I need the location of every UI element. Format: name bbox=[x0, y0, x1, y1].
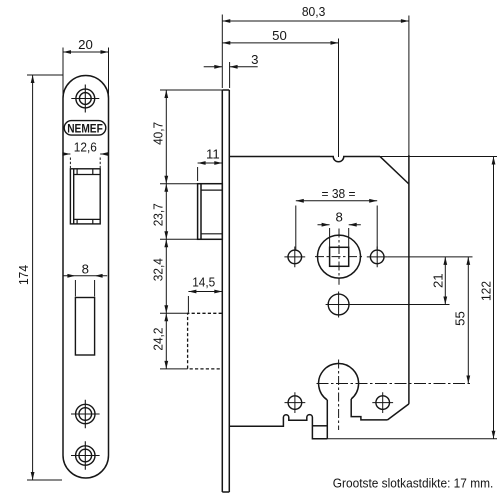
dimension 8 (spindle square) bbox=[318, 223, 361, 248]
case top right chamfer bbox=[380, 157, 409, 185]
extension lines for left chained dimensions bbox=[160, 90, 222, 369]
svg-text:11: 11 bbox=[206, 147, 220, 162]
dimension 21 (spindle to middle hole) bbox=[443, 257, 447, 305]
svg-text:NEMEF: NEMEF bbox=[67, 122, 103, 135]
dimension 8 (deadbolt cutout width) bbox=[63, 274, 107, 297]
svg-text:21: 21 bbox=[430, 273, 445, 288]
svg-text:Grootste slotkastdikte: 17 mm.: Grootste slotkastdikte: 17 mm. bbox=[333, 476, 494, 490]
case bottom right chamfer bbox=[388, 404, 409, 420]
svg-text:24,2: 24,2 bbox=[151, 328, 166, 351]
deadbolt thrown position (dashed, side view) bbox=[188, 313, 222, 369]
svg-text:3: 3 bbox=[251, 52, 258, 67]
svg-text:8: 8 bbox=[82, 262, 89, 277]
svg-text:= 38 =: = 38 = bbox=[322, 186, 356, 201]
screw hole middle (front view) bbox=[71, 400, 100, 429]
caption: Grootste slotkastdikte: 17 mm. bbox=[333, 476, 494, 490]
cylinder centre lines bbox=[317, 360, 473, 431]
svg-text:174: 174 bbox=[16, 265, 31, 285]
left chained dimension line (40,7 / 23,7 / 32,4 / 24,2) bbox=[164, 90, 168, 369]
deadbolt cutout (front view) bbox=[75, 298, 94, 356]
dimension 50 (backset) bbox=[222, 39, 338, 158]
top edge extension line to 122 dim bbox=[380, 156, 497, 158]
case fixing hole bottom right bbox=[372, 392, 393, 413]
svg-text:23,7: 23,7 bbox=[151, 203, 166, 226]
svg-text:122: 122 bbox=[479, 281, 494, 301]
svg-text:50: 50 bbox=[272, 28, 287, 43]
dimension 20 (faceplate width) bbox=[63, 48, 109, 98]
dimension 55 (spindle to cylinder) bbox=[466, 257, 470, 384]
svg-text:80,3: 80,3 bbox=[302, 4, 326, 19]
dimension 80,3 (case depth overall) bbox=[222, 15, 409, 156]
screw hole top (front view) bbox=[71, 85, 99, 113]
label 40,7 bbox=[151, 122, 166, 145]
extension line from right fixing hole to 21/55 dims bbox=[388, 256, 473, 258]
dimension 14,5 (deadbolt throw) bbox=[188, 290, 222, 313]
dimension 3 (faceplate thickness) bbox=[204, 62, 258, 88]
svg-text:32,4: 32,4 bbox=[151, 258, 166, 281]
svg-text:12,6: 12,6 bbox=[74, 140, 97, 155]
latch cutout (front view) bbox=[70, 169, 100, 224]
lock case top edge with notch bbox=[229, 157, 380, 162]
spindle centre lines bbox=[315, 229, 364, 285]
handle fixing hole left bbox=[284, 247, 305, 268]
faceplate side view (3mm plate) bbox=[222, 90, 229, 492]
handle fixing hole right bbox=[367, 247, 388, 268]
svg-text:8: 8 bbox=[336, 210, 343, 225]
front faceplate outline bbox=[63, 76, 109, 479]
case back edge bbox=[408, 155, 410, 404]
case bottom contour with spring bumps and cylinder foot bbox=[229, 399, 387, 439]
middle fixing hole bbox=[326, 292, 352, 318]
svg-text:40,7: 40,7 bbox=[151, 122, 166, 145]
dimension 12,6 (latch cutout width) bbox=[62, 152, 108, 168]
dimension =38= (handle hole spacing) bbox=[296, 199, 377, 250]
NEMEF logo text bbox=[67, 122, 103, 135]
label 32,4 bbox=[151, 258, 166, 281]
label 24,2 bbox=[151, 328, 166, 351]
NEMEF logo oval bbox=[64, 121, 106, 136]
extension line from middle hole to 21 dim bbox=[349, 304, 450, 306]
screw hole bottom (front view) bbox=[71, 441, 100, 470]
case fixing hole bottom left bbox=[285, 392, 306, 413]
cylinder hole (euro profile) bbox=[319, 363, 359, 400]
svg-text:55: 55 bbox=[453, 311, 468, 326]
latch bolt (side view) bbox=[198, 184, 223, 240]
spindle hole (circle with square follower) bbox=[318, 235, 361, 278]
dimension 174 (faceplate height) bbox=[27, 75, 63, 480]
label 23,7 bbox=[151, 203, 166, 226]
svg-text:20: 20 bbox=[78, 37, 93, 52]
dimension 11 (latch protrusion) bbox=[198, 161, 223, 181]
svg-text:14,5: 14,5 bbox=[192, 274, 215, 289]
dimension 122 (case height) bbox=[327, 157, 497, 439]
